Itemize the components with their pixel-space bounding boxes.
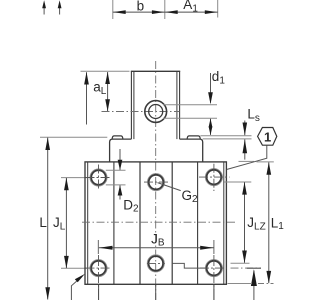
D2 dimension arrows [118,149,123,200]
hole bottom-left thin ring [90,260,107,277]
hole top-left thin ring [90,169,107,186]
hole middle-top (G2) thin ring [147,174,164,191]
G2 leader line [158,183,181,191]
arrow b right [152,10,165,14]
D2 upper tick line [106,169,126,171]
cut-off arrow up 2 (top left) [58,0,62,14]
svg-text:b: b [137,0,145,14]
svg-text:L: L [39,215,47,230]
hole top-left bold circle [91,170,106,185]
plan view outer rectangle [85,162,226,284]
hole bottom-right thin ring [205,260,222,277]
JL bottom extension line [61,267,87,269]
plan view horizontal centerline [82,221,236,223]
arrow A1 left [165,10,178,14]
right lube tab [187,136,200,139]
hole middle-top bold circle [149,175,164,190]
hole top-right bold circle [207,170,222,185]
cut-off arrow up 1 (top left) [42,0,46,14]
hole bottom-left crosshair [86,267,112,269]
left lube tab [112,136,123,139]
rail top extension line (left, for aL) [81,70,130,72]
arrow A1 right [205,10,218,14]
L1 top extension line [257,161,274,163]
d1 lower tangent extension line [163,117,217,119]
bottom-left cut-off leader arrow [71,274,85,300]
hole centerline stubs below plan view [98,285,100,300]
JL dimension line [64,178,69,269]
plan view rail top-face left edge [139,162,141,284]
rail hole outer circle [145,101,167,123]
Ls upper reference line [200,135,251,137]
L1 bottom extension line [228,283,253,285]
Ls lower reference line [203,138,252,140]
hole bottom-left bold circle [91,261,106,276]
bottom-right connecting step line [172,263,206,268]
d1 upper tangent extension line [163,104,217,106]
carriage body (front view) left side [110,139,132,162]
balloon leader line [227,145,267,169]
JLZ bottom extension line [231,262,250,264]
plan view right inner edge line [223,162,225,284]
hole top-right thin ring [205,169,222,186]
hole bottom-right bold circle [207,261,222,276]
rail centerline (vertical) [155,61,157,300]
hole top-right crosshair [199,176,230,178]
plan view right band line [197,162,199,284]
dimension b extension line left [112,0,114,19]
balloon hexagon 1 [258,128,277,146]
plan view left inner edge line [87,162,89,284]
rail top edge [131,70,180,72]
d1 dimension lower double arrow segment [209,119,213,136]
L top extension line (carriage top surface extended) [40,136,107,138]
shared extension line b/A1 [164,0,166,19]
rail right outer edge [179,71,181,139]
JLZ dimension line [242,182,247,263]
dimension A1 extension line right [217,0,219,18]
plan view left band line [113,162,115,284]
d1 dimension upper arrow [208,73,213,104]
carriage body (front view) right side [180,139,203,162]
hole middle-bottom thin ring [147,255,164,272]
Ls dimension arrows [239,121,255,162]
L dimension line [45,138,50,300]
arrow b left [113,10,126,14]
hole middle-top crosshair [144,181,169,183]
hole middle-bottom bold circle [149,256,164,271]
JB dimension line [98,240,214,254]
plan view rail top-face right edge [171,162,173,284]
hole top-left crosshair [86,177,112,179]
cut-off up arrow pointing at hole centerline [247,268,261,300]
JLZ top extension line [224,181,251,183]
rail left outer edge [130,71,132,139]
cut dimension line with up arrow at x=86.5 [84,72,89,125]
aL dimension line [105,72,110,111]
rail left inner line [133,72,135,139]
hole middle-bottom crosshair [147,262,165,264]
dimension line b / A1 [113,11,218,13]
svg-text:1: 1 [264,129,271,144]
JL top extension line [61,177,87,179]
hole bottom-right crosshair [200,267,227,269]
L1 dimension line [266,162,271,283]
rail hole inner circle d1 [149,105,163,119]
D2 lower tick line [106,184,126,186]
bottom-right hole centerline extended right [231,267,262,269]
rail right inner line [176,72,178,139]
hole horizontal centerline (front view) [102,111,180,113]
